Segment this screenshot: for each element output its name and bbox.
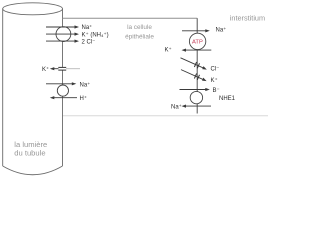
NHE3 H+ secretion arrow [50, 95, 87, 102]
svg-text:Cl⁻: Cl⁻ [211, 67, 220, 73]
basolateral membrane wire [196, 18, 198, 113]
svg-text:Na⁺: Na⁺ [80, 82, 91, 89]
svg-text:la cellule: la cellule [127, 24, 152, 31]
svg-text:ATP: ATP [192, 39, 203, 45]
NKCC2 2Cl- arrow [46, 39, 95, 45]
label "la lumière du tubule" [14, 140, 47, 158]
svg-text:K⁺ (NH₄⁺): K⁺ (NH₄⁺) [82, 31, 109, 38]
svg-text:K⁺: K⁺ [165, 47, 172, 54]
svg-text:H⁺: H⁺ [80, 95, 88, 102]
svg-text:interstitium: interstitium [230, 13, 265, 22]
svg-text:2 Cl⁻: 2 Cl⁻ [82, 39, 96, 45]
svg-text:Na⁺: Na⁺ [171, 104, 182, 111]
ATPase K+ uptake arrow [165, 47, 212, 54]
K+ channel (basolateral) [181, 70, 218, 85]
Na/K ATPase pump circle [189, 33, 205, 49]
svg-text:Na⁺: Na⁺ [216, 27, 227, 34]
NHE3 exchanger circle [57, 85, 68, 96]
B- base exit arrow [180, 88, 220, 94]
svg-text:épithéliale: épithéliale [125, 34, 154, 41]
tubule lumen cylinder [3, 3, 63, 175]
svg-text:B⁻: B⁻ [213, 88, 220, 94]
apical cell top wire [63, 17, 198, 19]
NHE3 Na+ entry arrow [46, 82, 90, 89]
basal cell border (faint line) [63, 115, 269, 117]
label "la cellule épithéliale" [125, 24, 154, 41]
NKCC2 K+(NH4+) arrow [46, 31, 109, 38]
NKCC2 Na+ arrow [46, 24, 92, 31]
NHE1 exchanger circle [190, 91, 202, 103]
svg-text:NHE1: NHE1 [219, 96, 236, 102]
svg-text:du tubule: du tubule [14, 148, 45, 157]
Cl- channel (basolateral) [181, 58, 220, 73]
ATPase Na+ extrusion arrow [182, 27, 226, 34]
svg-text:Na⁺: Na⁺ [82, 24, 93, 31]
NKCC2 cotransporter circle [56, 27, 71, 42]
ROMK K+ efflux arrow [42, 66, 59, 73]
ROMK K+ channel (apical, capacitor-style gap) [58, 67, 80, 70]
svg-text:K⁺: K⁺ [211, 77, 218, 84]
svg-text:K⁺: K⁺ [42, 66, 49, 73]
NHE1 Na+ uptake arrow [171, 104, 211, 111]
